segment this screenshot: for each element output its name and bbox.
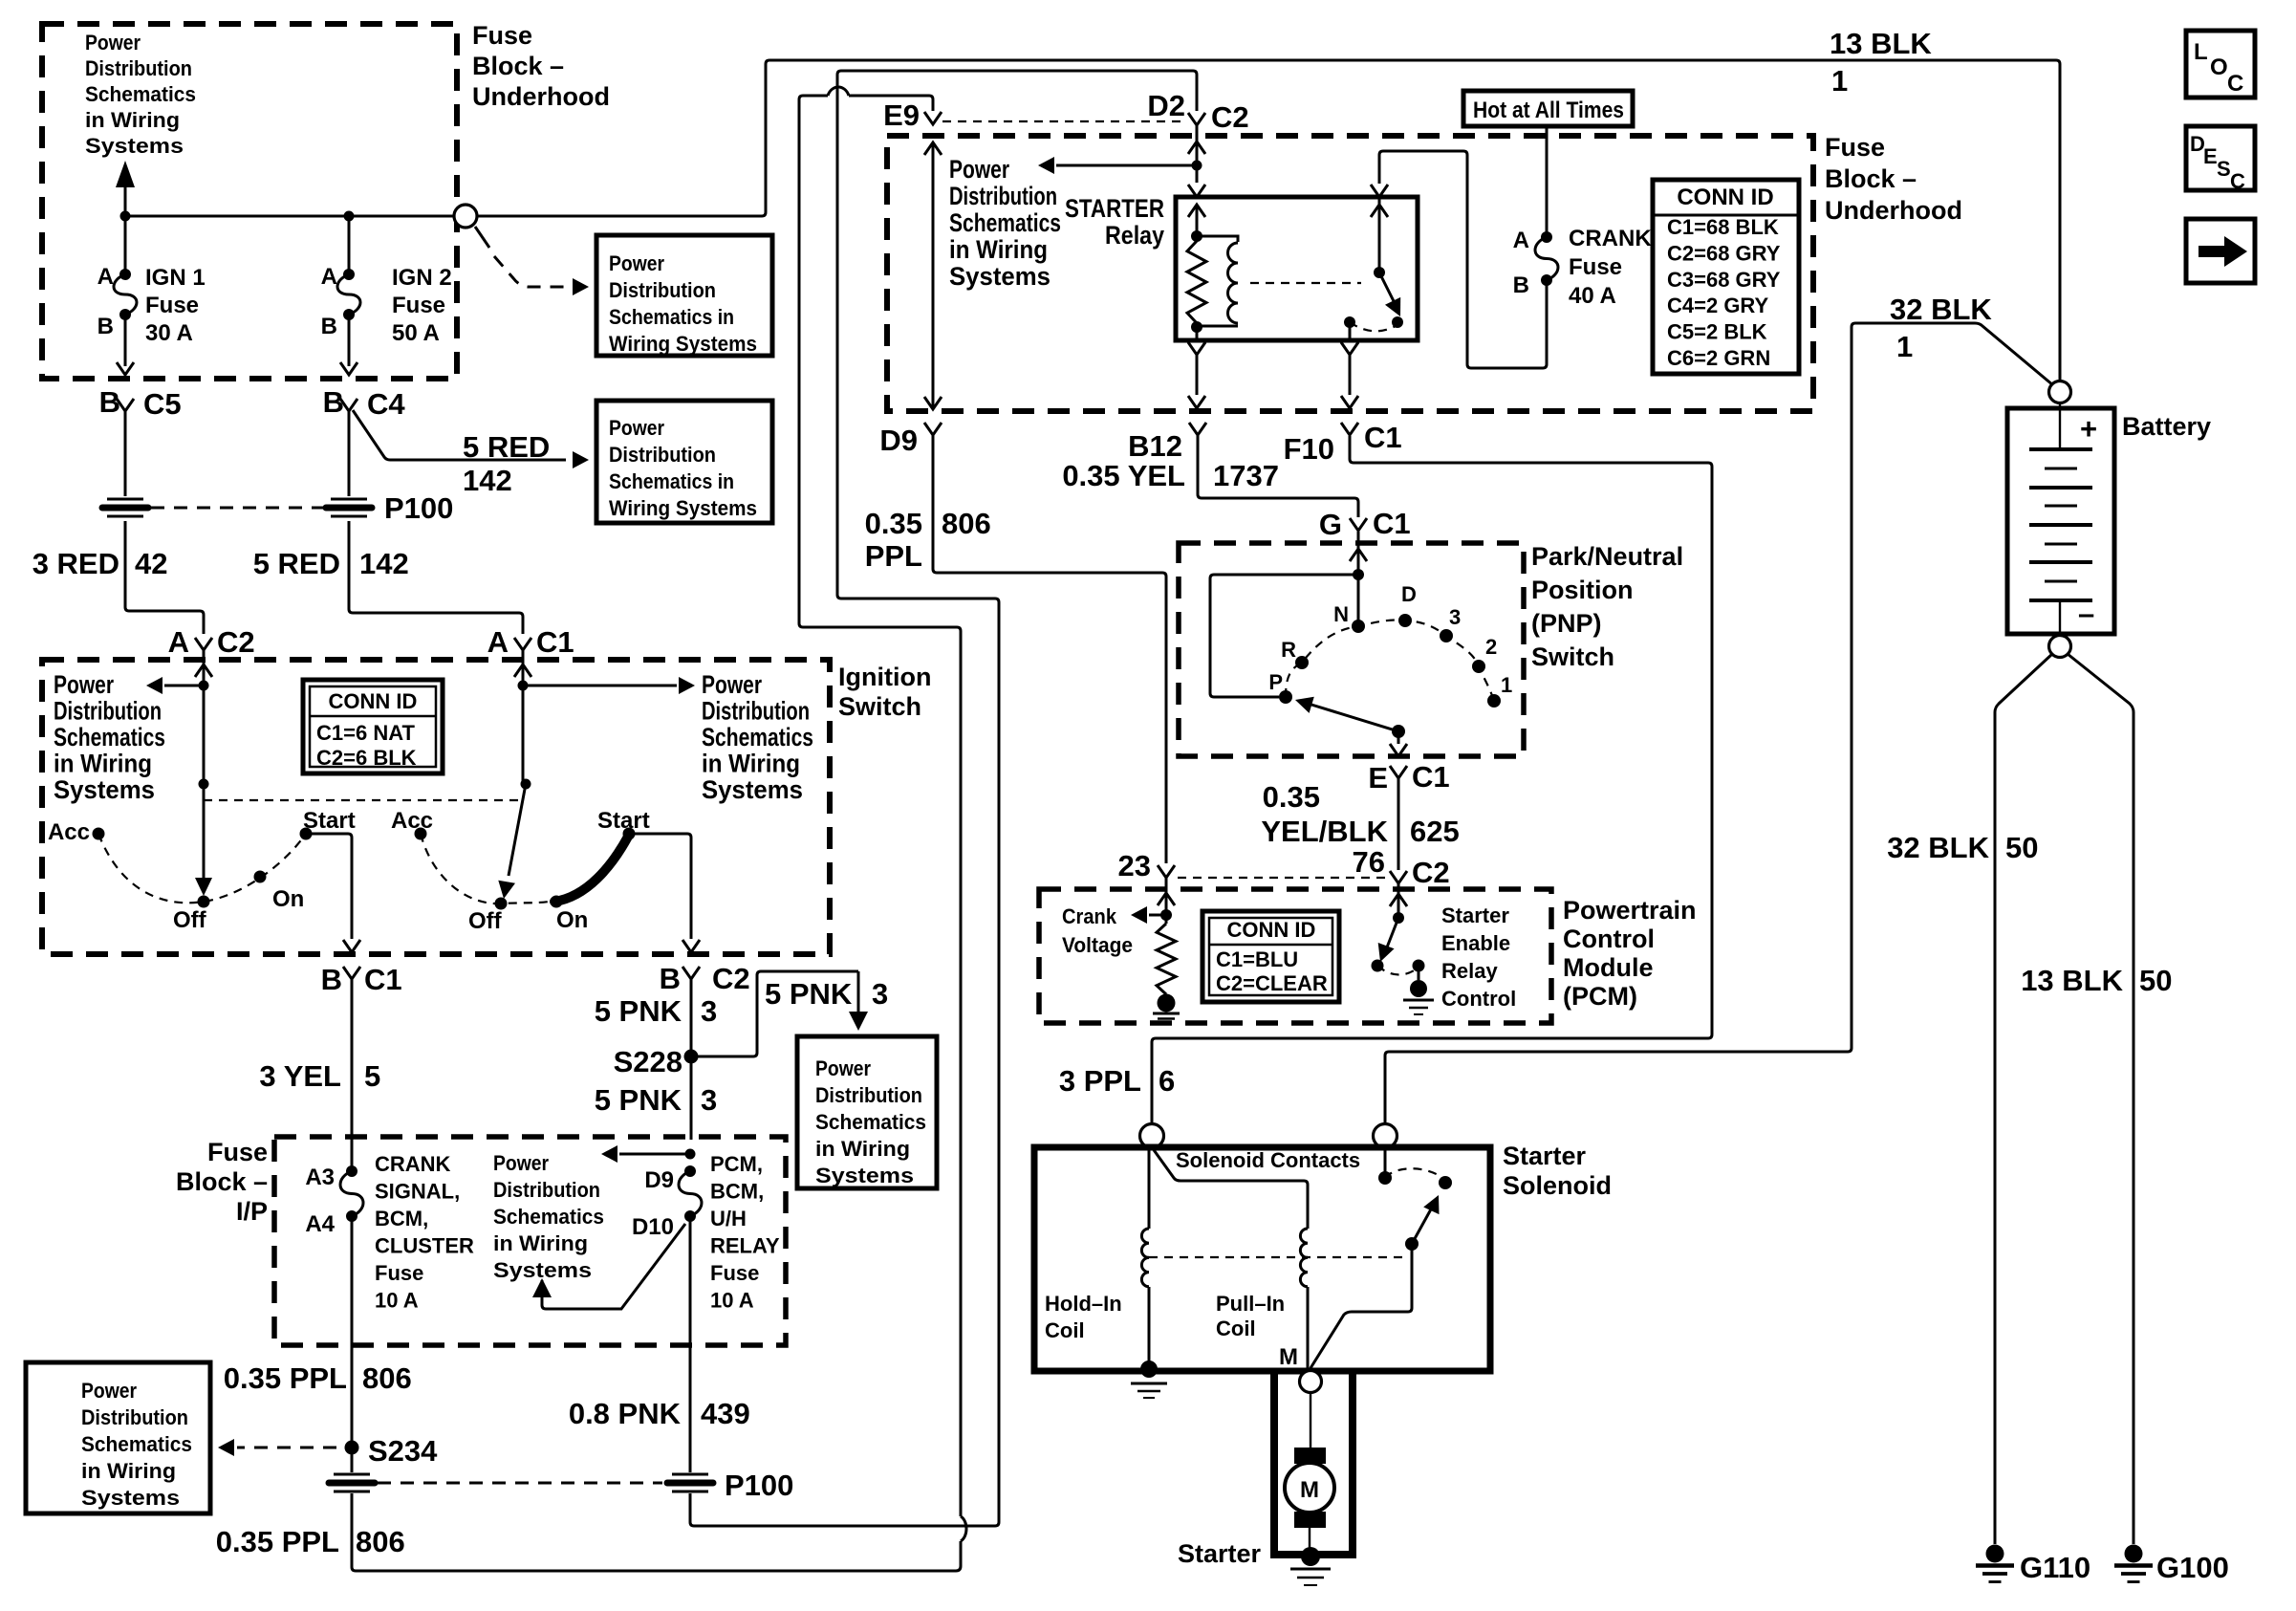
svg-text:Hold–In: Hold–In [1045, 1292, 1122, 1316]
svg-text:Distribution: Distribution [609, 278, 716, 302]
svg-text:C4=2 GRY: C4=2 GRY [1667, 294, 1769, 317]
svg-text:Distribution: Distribution [85, 56, 192, 80]
svg-text:Powertrain: Powertrain [1563, 896, 1697, 925]
svg-text:A: A [1513, 228, 1529, 253]
svg-text:BCM,: BCM, [710, 1180, 764, 1204]
svg-text:50: 50 [2005, 831, 2038, 864]
solenoid terminal circle right [1374, 1124, 1397, 1148]
svg-text:Fuse: Fuse [1825, 133, 1885, 162]
wire 13 BLK 1 bus to battery [477, 60, 2060, 381]
svg-text:–: – [2078, 597, 2094, 630]
svg-text:P: P [1268, 670, 1283, 694]
svg-text:Pull–In: Pull–In [1216, 1292, 1285, 1316]
connector B C5 [117, 399, 134, 411]
svg-text:SIGNAL,: SIGNAL, [375, 1180, 460, 1204]
svg-text:A: A [321, 264, 337, 290]
wire 5 RED 142 [349, 521, 523, 634]
svg-text:Start: Start [597, 808, 650, 834]
svg-text:C1=6 NAT: C1=6 NAT [316, 721, 415, 745]
grommet P100 left [107, 498, 143, 501]
svg-text:S228: S228 [614, 1045, 682, 1078]
svg-text:3: 3 [1449, 605, 1461, 629]
left contact arc [98, 834, 306, 903]
crank fuse 40 A [1546, 126, 1549, 233]
wire S234 to P100 [351, 1448, 354, 1472]
svg-text:Distribution: Distribution [702, 697, 810, 726]
svg-text:30 A: 30 A [145, 320, 193, 346]
svg-text:Wiring Systems: Wiring Systems [609, 496, 757, 520]
svg-text:Power: Power [815, 1056, 871, 1080]
svg-text:Schematics: Schematics [949, 208, 1061, 237]
svg-text:5 PNK: 5 PNK [765, 977, 853, 1011]
svg-text:G110: G110 [2020, 1551, 2090, 1584]
svg-text:0.35 PPL: 0.35 PPL [216, 1525, 339, 1558]
relay coil input chevrons [1188, 185, 1205, 197]
svg-text:Park/Neutral: Park/Neutral [1531, 542, 1683, 571]
svg-text:Starter: Starter [1178, 1539, 1262, 1568]
svg-text:10 A: 10 A [375, 1289, 419, 1313]
right blade arrow [509, 784, 526, 876]
svg-text:1737: 1737 [1213, 459, 1279, 492]
connector 76 C2 [1390, 871, 1407, 883]
svg-text:Fuse: Fuse [207, 1138, 268, 1166]
dashed arrow to power distribution note 1 [475, 227, 489, 248]
svg-text:5 PNK: 5 PNK [595, 994, 682, 1028]
svg-text:S234: S234 [368, 1434, 438, 1468]
svg-text:32 BLK: 32 BLK [1887, 831, 1989, 864]
svg-text:Block –: Block – [1825, 164, 1917, 193]
svg-text:Distribution: Distribution [81, 1405, 188, 1429]
connector A C1 [514, 638, 531, 650]
mechanical link dashed [204, 799, 524, 801]
svg-text:50: 50 [2139, 964, 2172, 997]
pnp contact 2 [1472, 660, 1485, 673]
starter relay box [1176, 197, 1418, 340]
starter solenoid box [1034, 1147, 1490, 1371]
pnp contact P [1279, 690, 1292, 704]
svg-text:50 A: 50 A [392, 320, 440, 346]
wire B12 to G C1 [1198, 435, 1358, 517]
wire feed bus [125, 215, 453, 218]
svg-text:PCM,: PCM, [710, 1152, 763, 1176]
svg-text:32 BLK: 32 BLK [1890, 293, 1992, 326]
svg-text:Schematics: Schematics [493, 1205, 604, 1229]
svg-text:C2=CLEAR: C2=CLEAR [1216, 971, 1328, 995]
svg-text:3 RED: 3 RED [32, 547, 119, 580]
dashed arrow S234 to note [237, 1447, 336, 1449]
svg-text:Position: Position [1531, 576, 1634, 604]
fuse block underhood left dashed box [42, 24, 457, 379]
svg-text:10 A: 10 A [710, 1289, 754, 1313]
contact Start right [623, 828, 636, 840]
svg-text:C1: C1 [1364, 421, 1402, 454]
starter bracket [1274, 1371, 1353, 1555]
svg-text:Systems: Systems [493, 1258, 592, 1282]
fuse A3 A4 crank signal [351, 1140, 354, 1171]
pcm dashed box [1039, 889, 1551, 1023]
svg-text:23: 23 [1118, 849, 1151, 882]
svg-text:Schematics: Schematics [54, 723, 165, 751]
svg-text:Acc: Acc [391, 808, 433, 834]
svg-text:C2=68 GRY: C2=68 GRY [1667, 241, 1781, 265]
battery bottom circle [2049, 636, 2071, 658]
svg-text:0.8 PNK: 0.8 PNK [569, 1397, 682, 1430]
svg-text:Systems: Systems [54, 775, 155, 804]
wire 806 to E9 [849, 96, 933, 111]
connector A C2 [195, 638, 212, 650]
svg-text:Fuse: Fuse [472, 21, 532, 50]
wire C4 down [348, 411, 351, 496]
svg-text:Off: Off [173, 907, 207, 933]
svg-text:CRANK: CRANK [1569, 226, 1652, 251]
svg-text:0.35 YEL: 0.35 YEL [1062, 459, 1185, 492]
svg-text:Starter: Starter [1441, 903, 1509, 927]
wire 439 lower run [690, 71, 1197, 1526]
svg-text:Power: Power [54, 670, 114, 699]
hot at all times box [1463, 91, 1633, 126]
wire Start to B C1 [306, 834, 352, 939]
connector B C1 [343, 967, 360, 979]
wire 3 RED 42 [125, 521, 204, 634]
svg-text:N: N [1333, 602, 1349, 626]
svg-text:B: B [1513, 272, 1529, 298]
svg-text:C1=BLU: C1=BLU [1216, 947, 1298, 971]
svg-text:in Wiring: in Wiring [85, 108, 180, 132]
svg-text:Systems: Systems [949, 262, 1051, 291]
svg-text:S: S [2217, 157, 2231, 181]
svg-text:42: 42 [135, 547, 167, 580]
wire F10 to solenoid 3 PPL 6 [1152, 436, 1712, 1124]
svg-text:C2=6 BLK: C2=6 BLK [316, 746, 417, 770]
solenoid contacts switch [1384, 1147, 1387, 1172]
relay switch output wire [1349, 322, 1352, 340]
wire 32 BLK 1 battery to solenoid [1385, 323, 2053, 1124]
connector B12 [1189, 423, 1206, 435]
relay contacts [1344, 316, 1355, 328]
svg-text:Systems: Systems [85, 134, 184, 158]
svg-text:Distribution: Distribution [815, 1083, 922, 1107]
svg-text:B12: B12 [1128, 429, 1182, 463]
svg-text:C1=68 BLK: C1=68 BLK [1667, 215, 1779, 239]
svg-text:C2: C2 [712, 962, 750, 995]
svg-text:in Wiring: in Wiring [815, 1137, 910, 1161]
svg-text:A: A [97, 264, 114, 290]
svg-text:C: C [2230, 169, 2245, 193]
svg-text:2: 2 [1485, 635, 1497, 659]
svg-text:Distribution: Distribution [54, 697, 162, 726]
svg-text:Starter: Starter [1503, 1142, 1587, 1170]
fuse IGN 1 30 A [124, 216, 127, 274]
svg-text:Distribution: Distribution [949, 182, 1057, 210]
pull-in coil [1300, 1229, 1308, 1287]
wire to left wiper [203, 686, 206, 784]
contact On right thick arc [551, 896, 563, 908]
svg-text:0.35 PPL: 0.35 PPL [224, 1361, 347, 1395]
svg-text:F10: F10 [1284, 432, 1334, 466]
svg-text:C: C [2227, 71, 2243, 97]
park neutral position switch dashed box [1179, 543, 1524, 756]
solenoid terminal circle left [1140, 1124, 1164, 1148]
svg-text:CONN ID: CONN ID [1227, 918, 1316, 942]
svg-text:CONN ID: CONN ID [329, 689, 418, 713]
svg-text:U/H: U/H [710, 1207, 747, 1230]
svg-text:B: B [97, 314, 114, 339]
svg-text:Relay: Relay [1441, 959, 1498, 983]
note power distribution box 2 [596, 401, 772, 523]
svg-text:M: M [1300, 1477, 1319, 1503]
pnp contact R [1295, 656, 1309, 669]
svg-text:Control: Control [1563, 925, 1655, 953]
dashed grommet link [151, 507, 323, 510]
svg-text:13 BLK: 13 BLK [1830, 27, 1932, 60]
svg-text:(PNP): (PNP) [1531, 609, 1602, 638]
svg-text:On: On [272, 886, 304, 912]
svg-text:C1: C1 [1373, 507, 1411, 540]
svg-text:Schematics: Schematics [85, 82, 196, 106]
svg-text:Solenoid Contacts: Solenoid Contacts [1176, 1148, 1360, 1172]
fuse block underhood dashed box [887, 136, 1813, 411]
svg-text:C6=2 GRN: C6=2 GRN [1667, 346, 1770, 370]
wire 0.8 PNK 439 below fuse [689, 1345, 692, 1472]
wire A C2 into box [203, 650, 206, 681]
legend DESC box [2186, 126, 2255, 190]
wire 3 YEL 5 [351, 979, 354, 1140]
wire arrow 5 RED 142 to note 2 [353, 410, 566, 460]
svg-text:I/P: I/P [236, 1197, 268, 1226]
svg-text:A3: A3 [305, 1165, 335, 1190]
wire 806 hop over 439 top [828, 87, 849, 96]
svg-text:D10: D10 [632, 1214, 674, 1240]
svg-text:3 PPL: 3 PPL [1059, 1064, 1141, 1098]
ignition switch dashed box [42, 660, 830, 954]
svg-text:D: D [1401, 582, 1417, 606]
svg-text:Power: Power [81, 1379, 137, 1403]
svg-text:Distribution: Distribution [493, 1178, 600, 1202]
starter enable relay control [1390, 894, 1407, 906]
connector F10 C1 [1341, 423, 1358, 435]
arrow from D9 to note [685, 1149, 696, 1160]
connector B C4 [340, 399, 357, 411]
svg-text:Coil: Coil [1216, 1317, 1256, 1340]
svg-text:13 BLK: 13 BLK [2021, 964, 2123, 997]
svg-text:C2: C2 [1211, 100, 1249, 134]
svg-text:A: A [487, 625, 509, 659]
svg-text:E9: E9 [883, 98, 920, 132]
relay link dashed [1250, 282, 1361, 284]
svg-text:Module: Module [1563, 953, 1654, 982]
svg-text:5 PNK: 5 PNK [595, 1083, 682, 1117]
svg-text:806: 806 [942, 507, 991, 540]
svg-text:Block –: Block – [472, 52, 564, 80]
svg-text:3: 3 [872, 977, 888, 1011]
svg-text:5: 5 [364, 1059, 380, 1093]
contact Acc right [415, 828, 427, 840]
connector circle switch [454, 205, 477, 228]
svg-text:Power: Power [609, 251, 664, 275]
arrow to note left [164, 685, 204, 687]
svg-text:Fuse: Fuse [1569, 254, 1622, 280]
svg-text:0.35: 0.35 [1263, 780, 1320, 814]
svg-text:Battery: Battery [2122, 412, 2211, 441]
svg-text:BCM,: BCM, [375, 1207, 428, 1230]
svg-text:Crank: Crank [1062, 904, 1117, 928]
wire D9 to PCM pin 23 [933, 435, 1166, 863]
wire to right wiper [522, 686, 525, 784]
solenoid link dashed [1149, 1256, 1407, 1258]
svg-text:6: 6 [1159, 1064, 1175, 1098]
conn id table underhood [1653, 180, 1799, 374]
arrow to note right [523, 685, 677, 687]
svg-text:CLUSTER: CLUSTER [375, 1234, 474, 1258]
svg-text:P100: P100 [725, 1469, 793, 1502]
pnp output wire [1397, 731, 1400, 744]
splice S234 [345, 1441, 359, 1455]
battery plates [2059, 403, 2061, 449]
wire 13 BLK 50 to G100 [2068, 654, 2134, 1544]
svg-text:CRANK: CRANK [375, 1152, 451, 1176]
wire 32 BLK 50 to G110 [1995, 654, 2052, 1544]
svg-text:C1: C1 [1412, 760, 1450, 794]
relay coil [1197, 236, 1238, 242]
svg-text:C2: C2 [217, 625, 255, 659]
svg-text:439: 439 [701, 1397, 750, 1430]
svg-text:806: 806 [362, 1361, 412, 1395]
svg-text:3: 3 [701, 1083, 717, 1117]
connector D2 C2 [1188, 113, 1205, 125]
svg-text:Hot at All Times: Hot at All Times [1473, 98, 1624, 123]
svg-text:C1: C1 [536, 625, 574, 659]
contact Off right [495, 898, 508, 910]
svg-text:B: B [99, 385, 120, 419]
wire G into PNP box [1357, 532, 1360, 572]
pnp blade [1392, 725, 1405, 738]
svg-text:Schematics: Schematics [815, 1110, 926, 1134]
note power distribution box bottom-left [26, 1362, 210, 1513]
svg-text:STARTER: STARTER [1065, 194, 1164, 223]
hold-in coil [1148, 1147, 1151, 1229]
svg-text:Relay: Relay [1105, 221, 1164, 250]
svg-text:5 RED: 5 RED [463, 430, 550, 464]
grommet P100 bottom right [672, 1473, 708, 1476]
wire C2 to relay coil [1196, 125, 1199, 183]
splice S228 [690, 979, 693, 1140]
svg-text:C2: C2 [1412, 856, 1450, 889]
arrow to note in fuse box [1056, 164, 1197, 167]
right contact arc dashed [421, 834, 549, 903]
svg-text:C5=2 BLK: C5=2 BLK [1667, 320, 1767, 344]
svg-text:C1: C1 [364, 963, 402, 996]
svg-text:C4: C4 [367, 387, 405, 421]
svg-text:Block –: Block – [176, 1167, 268, 1196]
thin dashed connector line top [942, 120, 1185, 122]
svg-text:806: 806 [356, 1525, 405, 1558]
wire 0.35 PPL 806 upper [351, 1345, 354, 1448]
svg-text:625: 625 [1410, 815, 1460, 848]
grommet P100 right [331, 498, 367, 501]
svg-text:PPL: PPL [865, 539, 922, 573]
svg-text:+: + [2080, 412, 2097, 446]
svg-text:IGN 2: IGN 2 [392, 265, 452, 291]
svg-text:C3=68 GRY: C3=68 GRY [1667, 268, 1781, 292]
svg-text:3: 3 [701, 994, 717, 1028]
svg-text:Switch: Switch [1531, 642, 1614, 671]
svg-text:Power: Power [949, 155, 1009, 184]
svg-text:Start: Start [303, 808, 356, 834]
svg-text:142: 142 [463, 464, 512, 497]
svg-text:P100: P100 [384, 491, 453, 525]
connector E9 [924, 112, 942, 124]
svg-text:1: 1 [1896, 330, 1913, 363]
pnp contact D [1398, 614, 1412, 627]
svg-text:RELAY: RELAY [710, 1234, 780, 1258]
thin dashed connector line pcm [1178, 877, 1388, 879]
svg-text:Schematics in: Schematics in [609, 469, 734, 493]
pnp contact 3 [1440, 629, 1453, 642]
svg-text:A4: A4 [305, 1211, 335, 1237]
svg-text:YEL/BLK: YEL/BLK [1261, 815, 1388, 848]
connector E C1 [1390, 766, 1407, 778]
note power distribution box 5PNK [797, 1036, 937, 1188]
svg-text:Systems: Systems [815, 1164, 914, 1187]
dashed grommet link bottom [378, 1482, 662, 1485]
contact On left [254, 871, 267, 883]
wire Start to B C2 [629, 834, 691, 939]
svg-text:E: E [1368, 761, 1388, 795]
svg-text:Switch: Switch [838, 692, 921, 721]
wire to pull-in coil [1152, 1147, 1308, 1229]
pnp inner circuit [1210, 575, 1358, 697]
wire E9 to D9 through box [924, 142, 942, 155]
battery top circle [2049, 381, 2071, 403]
conn id table ignition [303, 680, 443, 773]
conn id table pcm [1202, 911, 1339, 1002]
arrow from note to D10 [532, 1278, 552, 1297]
relay blade [1379, 272, 1395, 303]
svg-text:Control: Control [1441, 987, 1516, 1011]
wire A C1 into box [522, 650, 525, 681]
M terminal circle [1300, 1371, 1322, 1393]
svg-text:M: M [1279, 1344, 1298, 1370]
svg-text:O: O [2210, 54, 2228, 80]
solenoid ground [1131, 1382, 1167, 1385]
fuse D9 D10 uh relay [684, 1165, 696, 1177]
svg-text:Schematics: Schematics [81, 1432, 192, 1456]
wire 806 up middle [799, 96, 961, 1516]
svg-text:B: B [321, 963, 342, 996]
contact Acc left [93, 828, 105, 840]
svg-text:Coil: Coil [1045, 1318, 1085, 1342]
svg-text:Wiring Systems: Wiring Systems [609, 332, 757, 356]
relay coil output wire [1188, 342, 1205, 355]
connector G C1 [1350, 518, 1367, 531]
svg-text:On: On [556, 907, 588, 933]
ground G100 [2125, 1545, 2143, 1563]
svg-text:B: B [323, 385, 344, 419]
svg-text:Schematics in: Schematics in [609, 305, 734, 329]
svg-text:Fuse: Fuse [710, 1261, 759, 1285]
pnp contact 1 [1487, 694, 1501, 708]
svg-text:3 YEL: 3 YEL [259, 1059, 341, 1093]
svg-text:1: 1 [1831, 64, 1848, 98]
svg-text:Enable: Enable [1441, 931, 1510, 955]
svg-text:B: B [660, 962, 681, 995]
svg-text:Voltage: Voltage [1062, 933, 1133, 957]
battery box [2007, 408, 2114, 634]
svg-text:CONN ID: CONN ID [1677, 185, 1773, 210]
svg-text:Systems: Systems [81, 1486, 180, 1510]
svg-text:E: E [2203, 144, 2218, 168]
svg-text:A: A [168, 625, 189, 659]
